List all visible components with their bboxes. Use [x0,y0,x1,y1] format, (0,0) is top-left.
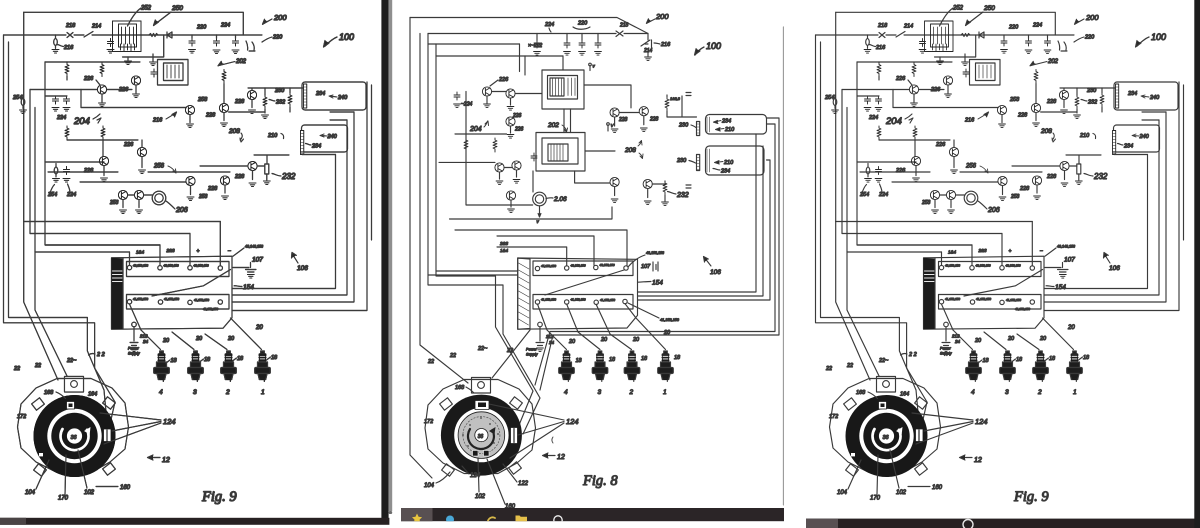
svg-text:204: 204 [469,126,482,133]
row 1 circles [535,266,539,270]
junction box inner edge [122,259,124,329]
svg-text:210: 210 [724,127,735,133]
svg-text:22: 22 [427,359,434,365]
svg-text:200: 200 [655,12,669,21]
terminal row 2 board [533,295,633,310]
svg-text:122: 122 [518,481,529,487]
panel 1 scrollbar strip [389,0,393,511]
transistor Q2 226 [131,76,140,85]
arrow 100 [695,47,704,55]
wire second rail y33.5 [428,33,648,35]
svg-text:22~: 22~ [477,346,488,352]
panel 2 taskbar blue circle icon [446,516,454,524]
svg-text:226: 226 [498,77,509,83]
resistor 232a [263,95,267,109]
op-amp U1 outer box [542,70,584,109]
svg-text:1&3,8: 1&3,8 [670,97,681,101]
wire U1 output loop [123,35,164,57]
battery 254b [54,167,58,174]
housing ear NW [32,398,45,410]
panel 2 taskbar [401,508,784,521]
arrow 100 [325,37,337,46]
resistor inline on rail [149,34,158,37]
transistor Q3 [185,105,194,114]
switch 212 scribble [246,41,255,51]
tab hole [71,381,78,388]
capacitor at U2 left [151,69,157,77]
wire rail y162 [439,161,495,163]
end cap white stripes [113,271,123,282]
bus drop x160 [159,245,161,266]
bus horizontals above box [24,222,221,253]
coil 240b hatched bar [301,131,304,155]
svg-text:Supply: Supply [526,353,539,357]
right bus v3 [232,112,354,302]
stipple dots [462,417,499,453]
svg-text:107: 107 [641,264,651,270]
resistor R-e [65,126,69,140]
svg-text:124: 124 [566,417,579,426]
capacitor 220a [214,38,220,46]
arrow 202 [562,125,568,132]
junction box left dark end cap [112,258,124,329]
svg-text:230: 230 [676,158,687,164]
wire mid vertical [466,92,533,206]
ignition coil box 1 [706,115,767,135]
power terminal [538,322,543,327]
transistor TP3 [506,191,515,200]
node V below lamp [538,206,541,217]
panel 2 taskbar gray segment [401,508,433,521]
wire y88 right [248,88,303,90]
svg-text:208: 208 [624,147,636,154]
spark plug 2 [624,351,640,382]
pickup sensor white block right [511,428,518,444]
transistor pair TP1 [495,163,504,172]
transistor QG 228 [220,176,229,185]
transistor QB 226 [99,156,108,165]
svg-text:1: 1 [663,389,667,396]
svg-text:2: 2 [629,389,634,396]
panel 1: Fig.9 drawing instance [4,5,372,505]
panel 2 taskbar swoosh icon [488,517,495,520]
panel 1 window right border bar [381,0,388,525]
coil bar 230a [697,122,700,136]
right bus v763 [638,146,763,296]
wire U2 to T6 T7 [575,171,665,184]
capacitor 224b pair [53,96,59,104]
arrow 250 [154,12,171,25]
wire y89 [30,89,132,91]
spark plug 4 [154,351,170,382]
ground under U1 pins [150,62,157,66]
wire y140 [67,139,138,141]
housing ear SE [103,463,116,475]
svg-text:18: 18 [641,356,648,362]
junction box left end hatched [518,258,530,329]
svg-text:106: 106 [710,269,721,276]
wire y62 [45,61,140,63]
wire row2 c1 drop [130,304,142,330]
panel 3 bottom window border bar [806,519,1195,528]
wire TP1 TP2 [504,167,512,169]
arrow 216b [166,113,176,119]
wire drop x519 [519,44,521,72]
coil 234a hatched bar [304,84,307,108]
transistor QA 226 [137,147,146,156]
wire upper mid [45,95,67,98]
wire U1 to T4 T5 [584,85,639,113]
right margin extra line [371,85,373,240]
wire diagonal inside box [152,270,231,297]
wire plug 3 lead [172,332,194,350]
right bus v2 [232,120,347,295]
distributor outer dark ring [441,395,522,476]
svg-text:224: 224 [544,22,554,28]
right bus v4 [232,82,367,311]
switch 218 [616,31,623,37]
op-amp U2 outer box [536,133,585,172]
spark plug 3 [592,351,608,382]
wire plug 1 lead [231,318,262,350]
svg-text:234: 234 [720,169,730,175]
plug 4 lead [538,304,567,349]
wire drop x525 [524,56,526,75]
capacitor U2 left [531,153,537,161]
junction box 24 outline [112,256,233,329]
distributor outer dark ring [34,395,116,477]
svg-text:48,150,156: 48,150,156 [600,263,615,267]
wire coil2 bottom to bus [302,152,336,155]
plug 1 lead [625,304,666,350]
svg-text:4: 4 [564,389,568,396]
bus drop x220 [219,222,221,266]
resistor 232b body [265,164,269,174]
page border right [783,27,785,505]
leaders 124 [100,413,161,444]
transistor QC [118,190,127,199]
wire main supply rail y35 [4,34,263,36]
transistor QI 228 [219,103,228,112]
power terminal circle [132,322,137,327]
resistor R-a [65,63,69,77]
svg-text:218: 218 [619,23,629,29]
svg-text:41,152,158: 41,152,158 [660,318,680,322]
svg-text:2&3: 2&3 [499,241,509,246]
battery 216 [645,34,652,57]
op-amp U2 mid box [542,138,578,164]
panel 3 bottom bar gray left segment [806,519,838,528]
svg-text:18: 18 [576,358,583,364]
wire y182 [80,181,186,183]
panel 2 taskbar folder icon [516,516,528,522]
transistor T4 228 [610,108,619,117]
svg-text:220: 220 [577,21,588,27]
svg-text:202: 202 [547,122,559,129]
op-amp U2 driver 202 [158,60,189,86]
terminal row 1 circles [127,265,131,269]
wire T2b bottom rail [455,133,507,135]
transistor pair TP2 [512,161,521,170]
lamp 206 [533,192,547,206]
wire y155 [254,155,289,164]
wire coil1 top [667,96,697,117]
svg-text:104: 104 [424,483,435,489]
svg-text:154: 154 [652,280,663,287]
svg-text:234: 234 [721,119,731,125]
housing ear SE [509,462,522,474]
svg-text:×~222: ×~222 [528,43,542,49]
spark plug 4 [559,351,575,382]
svg-text:20: 20 [600,337,608,343]
right bus v770 [638,160,770,300]
resistor left col a [464,138,468,152]
wire frame x45 [45,62,160,245]
node V top [589,63,592,66]
transistor T5 228 [639,107,648,116]
terminal row 1 board [533,261,633,276]
bus drop x190 [189,234,191,266]
svg-text:Fig. 8: Fig. 8 [582,473,618,489]
panel 3: Fig.9 drawing duplicate instance [816,5,1184,505]
arrow 106 [292,254,298,264]
svg-text:45,150,156: 45,150,156 [541,264,556,268]
resistor R-f [101,126,105,140]
right bus v3 top stub [330,111,354,113]
resistor 232 [663,181,667,195]
distributor octagon housing [425,380,536,474]
bus drop x129.5 [129,252,131,265]
panel 1 bottom bar gray left segment [0,518,26,525]
wire y166 [200,165,265,167]
housing ear SW [34,464,47,476]
capacitor output filter [189,38,195,46]
resistor R1 [665,97,669,111]
coil bar 230b [697,155,700,171]
right bus v1 [232,155,336,289]
switch 214 [641,40,650,46]
terminal row 1 board [127,262,230,277]
svg-text:41,152,158: 41,152,158 [600,298,615,302]
ground under U1 [125,61,132,65]
transistor T7 [643,179,652,188]
svg-text:172: 172 [424,419,433,425]
svg-text:1&4: 1&4 [500,248,509,253]
capacitor at U1 left [108,39,114,47]
small contact lower-left [39,453,43,456]
distributor white ring [454,408,508,462]
transistor T2 [506,89,515,98]
svg-text:18: 18 [674,355,681,361]
capacitor row b [564,40,570,48]
housing ear SW [442,464,455,476]
wire inner rail y56 [436,55,563,57]
power supply battery [130,327,138,346]
distributor octagon housing [18,379,129,473]
capacitor 224d [454,92,460,100]
wire y162 [45,161,104,163]
svg-text:~224: ~224 [461,102,472,108]
bottom contact squares [473,451,479,457]
battery 216 [54,39,58,46]
wire left bus v428 [428,34,540,435]
panel 3 bottom bar ring icon [963,520,973,528]
svg-text:226: 226 [514,127,524,133]
arrow 106 [704,257,711,266]
transistor QH 228 [247,90,256,99]
distributor hub [67,428,82,443]
wire y195 [128,194,152,196]
wire sensor lead 124 [104,390,115,424]
wire left bus v410 [410,18,432,479]
svg-text:40,158,156: 40,158,156 [646,251,664,255]
arrow 12 [150,457,160,459]
spark plug 2 [221,351,237,382]
right bus v775 [535,124,775,385]
rotor arc arrow [468,429,494,449]
resistor R-d [288,93,292,107]
spark plug 1 [658,351,674,382]
panel 3 window right border bar [1194,0,1200,528]
svg-text:Power: Power [526,348,537,352]
transistor QD [134,190,143,199]
wire left bus vertical 1 [4,35,116,402]
op-amp U1 inner [548,76,578,100]
wires into box left [428,271,518,275]
svg-text:20: 20 [632,337,640,343]
battery 254a [21,99,25,106]
spark plug 3 [188,351,204,382]
distributor white ring [47,409,101,463]
wire U1 top [562,56,564,70]
arrow 202 [219,62,235,66]
svg-text:216: 216 [660,42,671,48]
capacitor row c [579,40,585,48]
svg-text:40,150,156: 40,150,156 [571,264,586,268]
capacitor row d [595,40,601,48]
svg-text:2.06: 2.06 [553,196,567,203]
svg-text:228: 228 [649,117,659,123]
svg-text:12: 12 [557,454,565,461]
housing ear NE [103,397,116,409]
svg-text:232: 232 [676,192,689,199]
svg-text:210: 210 [723,160,734,166]
leaders 124 [489,404,564,458]
bus vertical x35 [34,108,36,253]
wire U2 right out [585,150,615,152]
distributor mounting tab [472,378,491,394]
op-amp U1 regulator 252 [113,21,142,52]
row 2 circles [535,300,539,304]
node eq mid [686,185,691,188]
right bus v756 [638,134,756,292]
resistor R-c [222,70,226,84]
wire stub [80,90,82,108]
svg-text:230: 230 [678,123,689,129]
spark plug 1 [255,351,271,382]
housing ear NE [510,397,523,409]
ignition coil 240b box [302,125,348,152]
capacitor 224c [64,167,70,175]
wavy mark [552,437,553,443]
wire left bus vertical 3 [23,12,25,221]
svg-text:20: 20 [568,339,576,345]
op-amp U2 inner [548,144,568,161]
svg-text:100: 100 [706,41,721,51]
arrow 200 [263,19,272,24]
svg-text:20: 20 [663,330,671,336]
distributor stippled disc [458,412,505,459]
svg-text:3: 3 [598,389,602,396]
svg-text:41,152,158: 41,152,158 [541,298,556,302]
wire inner mid frame [29,90,31,234]
transistor Q1 226 [97,85,106,94]
svg-text:24: 24 [548,340,555,345]
wire y107 [81,107,186,109]
wire lower rail y219 [450,207,613,219]
wires above box [455,230,627,266]
wire y172 [48,171,230,173]
wires 22 harness [24,222,58,381]
wire outer loop top [410,18,648,34]
transistor QF 228 [248,161,257,170]
wire U1 to U2 verticals [564,109,571,133]
pickup sensor white block right [104,429,112,442]
wire left bus v420 [420,34,468,384]
plug 3 lead [567,304,600,349]
wire y112 right [229,111,265,113]
wire 22 d lead [492,330,530,378]
arrow 12 [545,455,555,457]
distributor hub [475,429,488,442]
wire plug 4 lead [141,330,161,350]
svg-text:212: 212 [545,334,554,339]
housing ear NW [440,398,453,410]
switch 214 [84,32,93,38]
svg-text:228: 228 [618,117,628,123]
ignition coil 234a box [302,82,366,110]
cap contact white block top [67,402,75,410]
capacitor 222 [534,40,540,48]
capacitor 224a [233,38,239,46]
wire U2 bottom left drop [532,171,534,192]
terminal row 2 board [127,295,230,310]
wire left bus vertical 2 [9,42,105,390]
resistor left col b [493,138,497,152]
wire top page border horizontal [24,12,244,35]
diode 250 output [167,32,172,38]
wire plug 2 lead [205,334,227,350]
transistor T2b [506,117,515,126]
switch 218 [67,33,73,38]
svg-text:18: 18 [609,357,616,363]
distributor mounting tab [65,377,84,393]
wire left bus v436 [436,44,533,430]
distributor inner dark ring [51,413,97,459]
svg-text:168: 168 [455,385,465,391]
panel 2 taskbar ring icon [554,516,562,524]
wire diagonal inside box [545,270,624,295]
wire T2 to U1 [515,93,542,95]
arrow 200 [647,19,655,23]
transistor T1 226 [482,87,491,96]
terminal row 2 circles [127,300,131,304]
right bus v2 top stub [330,119,347,121]
svg-text:102: 102 [475,494,486,500]
svg-text:36: 36 [478,434,484,440]
node V mid [607,123,610,126]
lamp 206 [152,191,166,205]
